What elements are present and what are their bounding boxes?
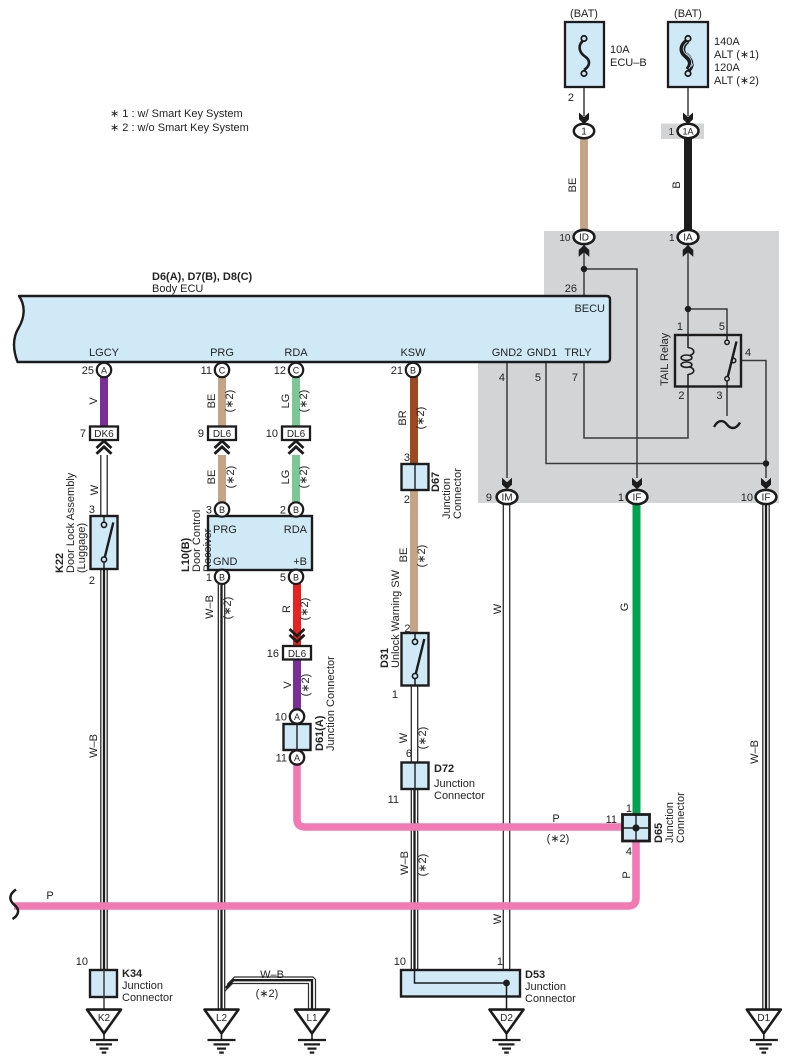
svg-text:PRG: PRG xyxy=(213,524,237,536)
L10 pin circle B (2) xyxy=(289,502,303,516)
svg-text:(∗2): (∗2) xyxy=(224,390,236,413)
svg-text:W: W xyxy=(492,603,504,614)
svg-text:W–B: W–B xyxy=(399,851,411,875)
svg-text:(∗2): (∗2) xyxy=(225,466,237,489)
wire W-B L10 pin 1 to L2 ground xyxy=(218,583,224,1009)
svg-text:(∗2): (∗2) xyxy=(256,988,279,1000)
svg-text:W: W xyxy=(492,913,504,924)
wire TRLY to relay pin 2 xyxy=(584,362,688,438)
Body ECU box xyxy=(14,296,610,362)
svg-text:TAIL Relay: TAIL Relay xyxy=(659,332,671,386)
svg-text:1: 1 xyxy=(626,803,632,815)
svg-text:W: W xyxy=(89,484,101,495)
svg-text:DK6: DK6 xyxy=(94,429,114,440)
chevron pair pointing down above DL6 pin 16 xyxy=(290,629,305,642)
svg-text:D6(A), D7(B), D8(C): D6(A), D7(B), D8(C) xyxy=(152,271,253,283)
svg-text:IA: IA xyxy=(683,233,693,244)
svg-text:C: C xyxy=(293,366,300,376)
chevron pair below DL6 pin 10 xyxy=(289,441,304,454)
wire W white DK6 to K22 pin 3 xyxy=(101,455,107,516)
connector ellipse ID xyxy=(574,230,595,244)
svg-text:120A: 120A xyxy=(714,62,740,74)
junction connector D61(A) xyxy=(284,724,311,750)
L10 pin circle B (3) xyxy=(215,502,229,516)
junction connector D53 xyxy=(401,970,520,1009)
svg-text:A: A xyxy=(294,712,300,722)
svg-text:Connector: Connector xyxy=(434,790,485,802)
direction arrow into connector 1 xyxy=(579,113,589,125)
svg-text:L1: L1 xyxy=(306,1013,318,1024)
svg-text:3: 3 xyxy=(404,452,410,464)
wire relay pin 3 stub xyxy=(726,386,728,416)
wire R red L10 pin 5 to DL6 xyxy=(293,583,301,647)
svg-text:ID: ID xyxy=(579,233,589,244)
receiver L10(B) box xyxy=(208,516,312,570)
continuation squiggle at pink wire left end xyxy=(10,890,18,920)
svg-text:B: B xyxy=(219,505,225,515)
svg-text:Junction: Junction xyxy=(434,778,475,790)
svg-text:Junction: Junction xyxy=(122,980,163,992)
svg-text:4: 4 xyxy=(745,347,751,359)
svg-text:Junction: Junction xyxy=(525,981,566,993)
continuation squiggle under relay pin 3 xyxy=(714,421,740,428)
svg-text:B: B xyxy=(293,572,299,582)
junction connector D65 xyxy=(623,815,650,842)
svg-text:10: 10 xyxy=(394,956,406,968)
svg-text:W–B: W–B xyxy=(749,740,761,764)
ground L2 xyxy=(205,1010,239,1053)
svg-text:2: 2 xyxy=(404,494,410,506)
wire G green IF(1) to D65 xyxy=(633,503,641,816)
wire fuse1 lead xyxy=(583,87,585,116)
wire IA to relay pin 1 xyxy=(687,244,689,335)
svg-text:∗ 2 : w/o Smart Key System: ∗ 2 : w/o Smart Key System xyxy=(110,122,249,134)
svg-text:2: 2 xyxy=(404,623,410,635)
wire relay pin 4 to IF(10) xyxy=(741,361,766,479)
wire LG green DL6 to L10 pin 2 xyxy=(292,455,300,504)
svg-text:Connector: Connector xyxy=(675,792,687,843)
connector tag DL6 pin 16 xyxy=(283,646,311,660)
svg-text:10: 10 xyxy=(76,956,88,968)
svg-text:5: 5 xyxy=(535,372,541,384)
wire W-B IF(10) to D1 ground xyxy=(763,503,769,1009)
ECU pin circle C (PRG 11) xyxy=(215,363,229,377)
svg-text:1: 1 xyxy=(392,689,398,701)
wire W (*2) D31 pin 1 to D72 pin 6 xyxy=(411,685,417,763)
direction arrow into IF(1) xyxy=(632,478,642,490)
svg-text:7: 7 xyxy=(572,372,578,384)
direction arrow into connector 1A xyxy=(683,113,693,125)
svg-text:DL6: DL6 xyxy=(213,429,232,440)
connector ellipse 1A xyxy=(678,124,699,138)
wire BE beige from fuse 1 to ID xyxy=(580,136,588,232)
TAIL relay box xyxy=(675,335,741,387)
svg-text:W: W xyxy=(398,732,410,743)
svg-text:9: 9 xyxy=(198,428,204,440)
svg-text:D72: D72 xyxy=(434,763,454,775)
svg-text:W–B: W–B xyxy=(260,969,284,981)
ground L1 xyxy=(295,1010,329,1053)
svg-text:Connector: Connector xyxy=(122,992,173,1004)
svg-text:B: B xyxy=(293,505,299,515)
svg-text:3: 3 xyxy=(716,390,722,402)
svg-text:P: P xyxy=(621,871,633,878)
svg-text:10A: 10A xyxy=(610,44,630,56)
svg-text:A: A xyxy=(294,753,300,763)
svg-text:+B: +B xyxy=(293,556,307,568)
svg-text:12: 12 xyxy=(274,365,286,377)
svg-text:K34: K34 xyxy=(122,968,143,980)
connector tag DL6 pin 9 xyxy=(208,427,236,441)
chevron pair below DK6 xyxy=(97,441,112,454)
L10 pin circle B (5) xyxy=(289,570,303,584)
svg-text:GND1: GND1 xyxy=(527,347,558,359)
svg-text:V: V xyxy=(282,681,294,689)
wire P pink D61 pin 11 to D65 pin 11 xyxy=(297,763,622,827)
svg-text:1: 1 xyxy=(206,572,212,584)
svg-text:4: 4 xyxy=(499,372,505,384)
svg-text:P: P xyxy=(552,813,559,825)
svg-text:G: G xyxy=(619,603,631,612)
svg-text:25: 25 xyxy=(82,365,94,377)
svg-text:(∗2): (∗2) xyxy=(415,407,427,430)
junction connector D72 xyxy=(402,763,429,790)
svg-text:Junction Connector: Junction Connector xyxy=(325,656,337,751)
svg-text:10: 10 xyxy=(266,428,278,440)
junction connector D67 xyxy=(402,464,429,490)
shield gray background region xyxy=(478,231,779,503)
svg-text:(∗2): (∗2) xyxy=(222,597,234,620)
svg-text:(∗2): (∗2) xyxy=(547,833,570,845)
svg-text:11: 11 xyxy=(201,365,212,377)
svg-text:1: 1 xyxy=(497,956,503,968)
wire fuse2 lead xyxy=(687,87,689,116)
svg-text:V: V xyxy=(88,397,100,405)
svg-text:BE: BE xyxy=(206,394,218,409)
wire W-B branch to L1 ground xyxy=(225,977,316,1009)
svg-text:4: 4 xyxy=(626,846,632,858)
wire V purple LGCY to DK6 xyxy=(100,376,108,427)
svg-text:(∗2): (∗2) xyxy=(298,466,310,489)
svg-text:Body ECU: Body ECU xyxy=(152,283,203,295)
svg-text:1: 1 xyxy=(581,127,587,138)
fusible link 140A/120A ALT xyxy=(668,22,708,87)
svg-text:Receiver: Receiver xyxy=(202,528,214,572)
wire branch node 26 to IF(1) xyxy=(584,269,637,478)
direction arrow into ID xyxy=(579,245,590,257)
svg-text:7: 7 xyxy=(80,428,86,440)
svg-text:KSW: KSW xyxy=(400,347,426,359)
svg-text:Unlock Warning SW: Unlock Warning SW xyxy=(390,569,402,668)
svg-text:(∗2): (∗2) xyxy=(298,390,310,413)
svg-text:(∗2): (∗2) xyxy=(417,727,429,750)
svg-text:BE: BE xyxy=(398,548,410,563)
svg-text:2: 2 xyxy=(568,92,574,104)
wire ID to BECU pin 26 xyxy=(583,244,585,296)
svg-text:A: A xyxy=(101,366,107,376)
svg-text:∗ 1 : w/ Smart Key System: ∗ 1 : w/ Smart Key System xyxy=(110,108,243,120)
relay switch xyxy=(725,335,737,386)
wire BR brown KSW to D67 xyxy=(410,376,418,465)
connector ellipse IF(1) xyxy=(627,490,648,504)
svg-text:W–B: W–B xyxy=(88,734,100,758)
svg-text:L2: L2 xyxy=(216,1013,228,1024)
svg-text:2: 2 xyxy=(280,505,286,517)
svg-text:(BAT): (BAT) xyxy=(674,8,702,20)
connector tag DK6 pin 7 xyxy=(90,427,118,441)
svg-text:Connector: Connector xyxy=(452,468,464,519)
relay coil xyxy=(681,335,694,387)
svg-text:140A: 140A xyxy=(714,36,740,48)
svg-text:B: B xyxy=(410,366,416,376)
svg-text:BECU: BECU xyxy=(574,303,605,315)
connector ellipse 1 xyxy=(574,124,594,138)
svg-text:D1: D1 xyxy=(757,1013,770,1024)
node dot at IA branch xyxy=(685,306,691,312)
svg-text:(BAT): (BAT) xyxy=(570,8,598,20)
svg-text:C: C xyxy=(219,366,226,376)
wire W-B K22 pin 2 to K34 xyxy=(101,569,107,970)
svg-text:21: 21 xyxy=(391,365,403,377)
direction arrow into IA xyxy=(683,245,694,257)
svg-text:10: 10 xyxy=(559,233,571,244)
switch K22 Door Lock Assembly xyxy=(91,516,118,569)
svg-text:1: 1 xyxy=(677,321,683,333)
svg-text:5: 5 xyxy=(719,321,725,333)
svg-text:(∗2): (∗2) xyxy=(300,674,312,697)
svg-text:BR: BR xyxy=(397,410,409,425)
direction arrow into IF(10) xyxy=(761,478,771,490)
node dot at 26 branch xyxy=(581,266,587,272)
svg-text:D2: D2 xyxy=(500,1013,513,1024)
ECU pin circle B (KSW 21) xyxy=(406,363,420,377)
svg-text:IM: IM xyxy=(501,493,512,504)
svg-text:P: P xyxy=(46,890,53,902)
wire GND1 to IF(10) junction xyxy=(546,362,766,464)
svg-text:11: 11 xyxy=(606,814,617,826)
ground D2 xyxy=(490,1010,524,1053)
svg-text:2: 2 xyxy=(89,575,95,587)
svg-text:ALT (∗1): ALT (∗1) xyxy=(714,49,759,61)
switch D31 Unlock Warning SW xyxy=(402,633,429,686)
svg-text:IF: IF xyxy=(762,493,771,504)
direction arrow into IM xyxy=(502,478,512,490)
svg-text:9: 9 xyxy=(486,492,492,504)
wire W IM to D53 pin 1 xyxy=(503,503,509,970)
wire LG green RDA to DL6 xyxy=(292,376,300,427)
highlight tag behind connector 1A xyxy=(661,124,704,140)
junction pin circle A (10) xyxy=(290,709,304,723)
svg-text:16: 16 xyxy=(267,648,279,660)
ground D1 xyxy=(747,1010,781,1053)
node dot at IF(10) junction xyxy=(763,460,769,466)
chevron pair below DL6 pin 9 xyxy=(215,441,230,454)
svg-text:(∗2): (∗2) xyxy=(299,598,311,621)
svg-text:Connector: Connector xyxy=(525,993,576,1005)
svg-text:3: 3 xyxy=(206,505,212,517)
svg-text:B: B xyxy=(219,572,225,582)
svg-text:1: 1 xyxy=(668,127,674,138)
svg-text:K2: K2 xyxy=(98,1013,111,1024)
svg-text:1A: 1A xyxy=(682,127,693,137)
svg-text:GND: GND xyxy=(213,556,238,568)
svg-text:1: 1 xyxy=(669,233,675,244)
wire V purple DL6 to D61 xyxy=(293,659,301,710)
svg-text:5: 5 xyxy=(280,572,286,584)
svg-text:RDA: RDA xyxy=(284,524,308,536)
wire B black from fuse 2 to IA xyxy=(684,136,692,232)
svg-text:3: 3 xyxy=(89,504,95,516)
svg-text:LG: LG xyxy=(280,394,292,409)
svg-text:11: 11 xyxy=(276,753,287,765)
svg-text:BE: BE xyxy=(206,470,218,485)
svg-text:ALT (∗2): ALT (∗2) xyxy=(714,75,759,87)
wire BE beige DL6 to L10 pin 3 xyxy=(218,455,226,504)
svg-text:TRLY: TRLY xyxy=(564,347,592,359)
svg-text:2: 2 xyxy=(678,390,684,402)
fuse 10A ECU-B xyxy=(565,22,604,87)
svg-text:IF: IF xyxy=(633,493,642,504)
wire branch to relay pin 5 xyxy=(688,309,727,335)
connector tag DL6 pin 10 xyxy=(282,427,310,441)
svg-text:1: 1 xyxy=(618,492,624,504)
ECU pin circle A (LGCY 25) xyxy=(97,363,111,377)
svg-text:D53: D53 xyxy=(525,969,545,981)
L10 pin circle B (1) xyxy=(215,570,229,584)
svg-text:RDA: RDA xyxy=(284,347,308,359)
svg-text:B: B xyxy=(671,181,683,188)
junction connector K34 xyxy=(90,970,117,1009)
svg-text:6: 6 xyxy=(406,748,412,760)
ground K2 xyxy=(87,1010,121,1053)
svg-text:10: 10 xyxy=(275,712,287,724)
svg-text:PRG: PRG xyxy=(210,347,234,359)
wire BE beige PRG to DL6 xyxy=(218,376,226,427)
svg-text:R: R xyxy=(281,605,293,613)
wire GND2 to IM xyxy=(506,362,508,478)
ECU pin circle C (RDA 12) xyxy=(289,363,303,377)
wire P pink D65 pin 4 to left continuation xyxy=(14,840,636,906)
junction pin circle A (11) xyxy=(290,750,304,764)
svg-text:26: 26 xyxy=(565,283,577,295)
svg-text:GND2: GND2 xyxy=(492,347,523,359)
svg-text:W–B: W–B xyxy=(204,595,216,619)
wire W-B (*2) D72 pin 11 to D53 pin 10 xyxy=(411,789,417,970)
svg-text:11: 11 xyxy=(388,794,399,806)
connector ellipse IA xyxy=(678,230,699,244)
svg-text:LG: LG xyxy=(280,470,292,485)
svg-text:DL6: DL6 xyxy=(288,649,307,660)
svg-text:(∗2): (∗2) xyxy=(416,545,428,568)
svg-text:ECU–B: ECU–B xyxy=(610,57,647,69)
svg-text:DL6: DL6 xyxy=(287,429,306,440)
svg-text:BE: BE xyxy=(567,178,579,193)
svg-text:LGCY: LGCY xyxy=(89,347,120,359)
svg-text:(∗2): (∗2) xyxy=(417,854,429,877)
svg-text:(Luggage): (Luggage) xyxy=(76,523,88,573)
svg-text:10: 10 xyxy=(741,492,753,504)
connector ellipse IM xyxy=(497,490,518,504)
connector ellipse IF(10) xyxy=(756,490,777,504)
wire BE beige D67 to D31 xyxy=(410,489,418,634)
